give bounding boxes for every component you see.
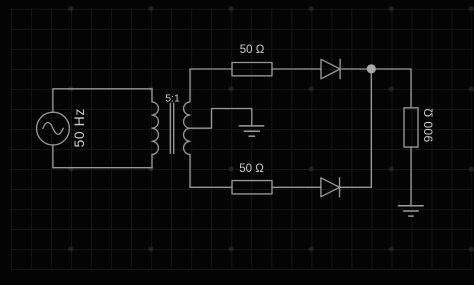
voltage source V1 sine wave xyxy=(43,123,63,135)
grid dots xyxy=(69,6,474,251)
diode D1 triangle xyxy=(321,59,340,79)
wire R1 to D1 xyxy=(272,68,321,70)
wire secondary top rail to R1 xyxy=(190,68,232,70)
wire bottom branch up to node xyxy=(370,69,372,187)
transformer T1 primary winding xyxy=(152,102,158,155)
wire source bottom xyxy=(52,145,54,168)
wire primary bottom rail xyxy=(53,167,152,169)
ground center tap xyxy=(239,126,264,136)
svg-text:50 Ω: 50 Ω xyxy=(240,44,265,56)
wire source top to primary top rail xyxy=(52,89,54,113)
svg-text:5:1: 5:1 xyxy=(165,92,180,104)
wire primary winding bottom to bottom rail xyxy=(151,155,153,168)
wire right corner down to R3 xyxy=(410,69,412,108)
wire R3 bottom to ground xyxy=(410,147,412,206)
wire secondary top to top rail xyxy=(189,69,191,102)
wire node to right corner xyxy=(371,68,411,70)
wire primary top rail xyxy=(53,88,152,90)
wire D2 to right branch xyxy=(340,186,372,188)
wire center tap xyxy=(190,109,252,129)
svg-text:50 Ω: 50 Ω xyxy=(239,163,264,175)
resistor R2 50ohm body xyxy=(232,181,272,194)
resistor R1 50ohm body xyxy=(232,63,272,76)
transformer T1 core xyxy=(170,103,173,153)
wire D1 to node xyxy=(340,68,371,70)
svg-text:50 Hz: 50 Hz xyxy=(71,108,87,147)
svg-text:900 Ω: 900 Ω xyxy=(422,108,436,142)
wire primary top drop to winding xyxy=(151,89,153,102)
resistor R3 900ohm body xyxy=(404,108,418,147)
wire R2 to D2 xyxy=(272,186,321,188)
ground right xyxy=(398,206,424,216)
diode D1 cathode bar xyxy=(339,59,341,79)
transformer T1 secondary winding xyxy=(184,102,190,155)
diode D2 cathode bar xyxy=(339,178,341,197)
voltage source V1 circle xyxy=(37,112,70,145)
diode D2 triangle xyxy=(321,178,340,197)
node junction dot xyxy=(367,64,376,73)
wire secondary bottom to bottom rail xyxy=(189,155,191,188)
wire secondary bottom rail to R2 xyxy=(190,186,232,188)
